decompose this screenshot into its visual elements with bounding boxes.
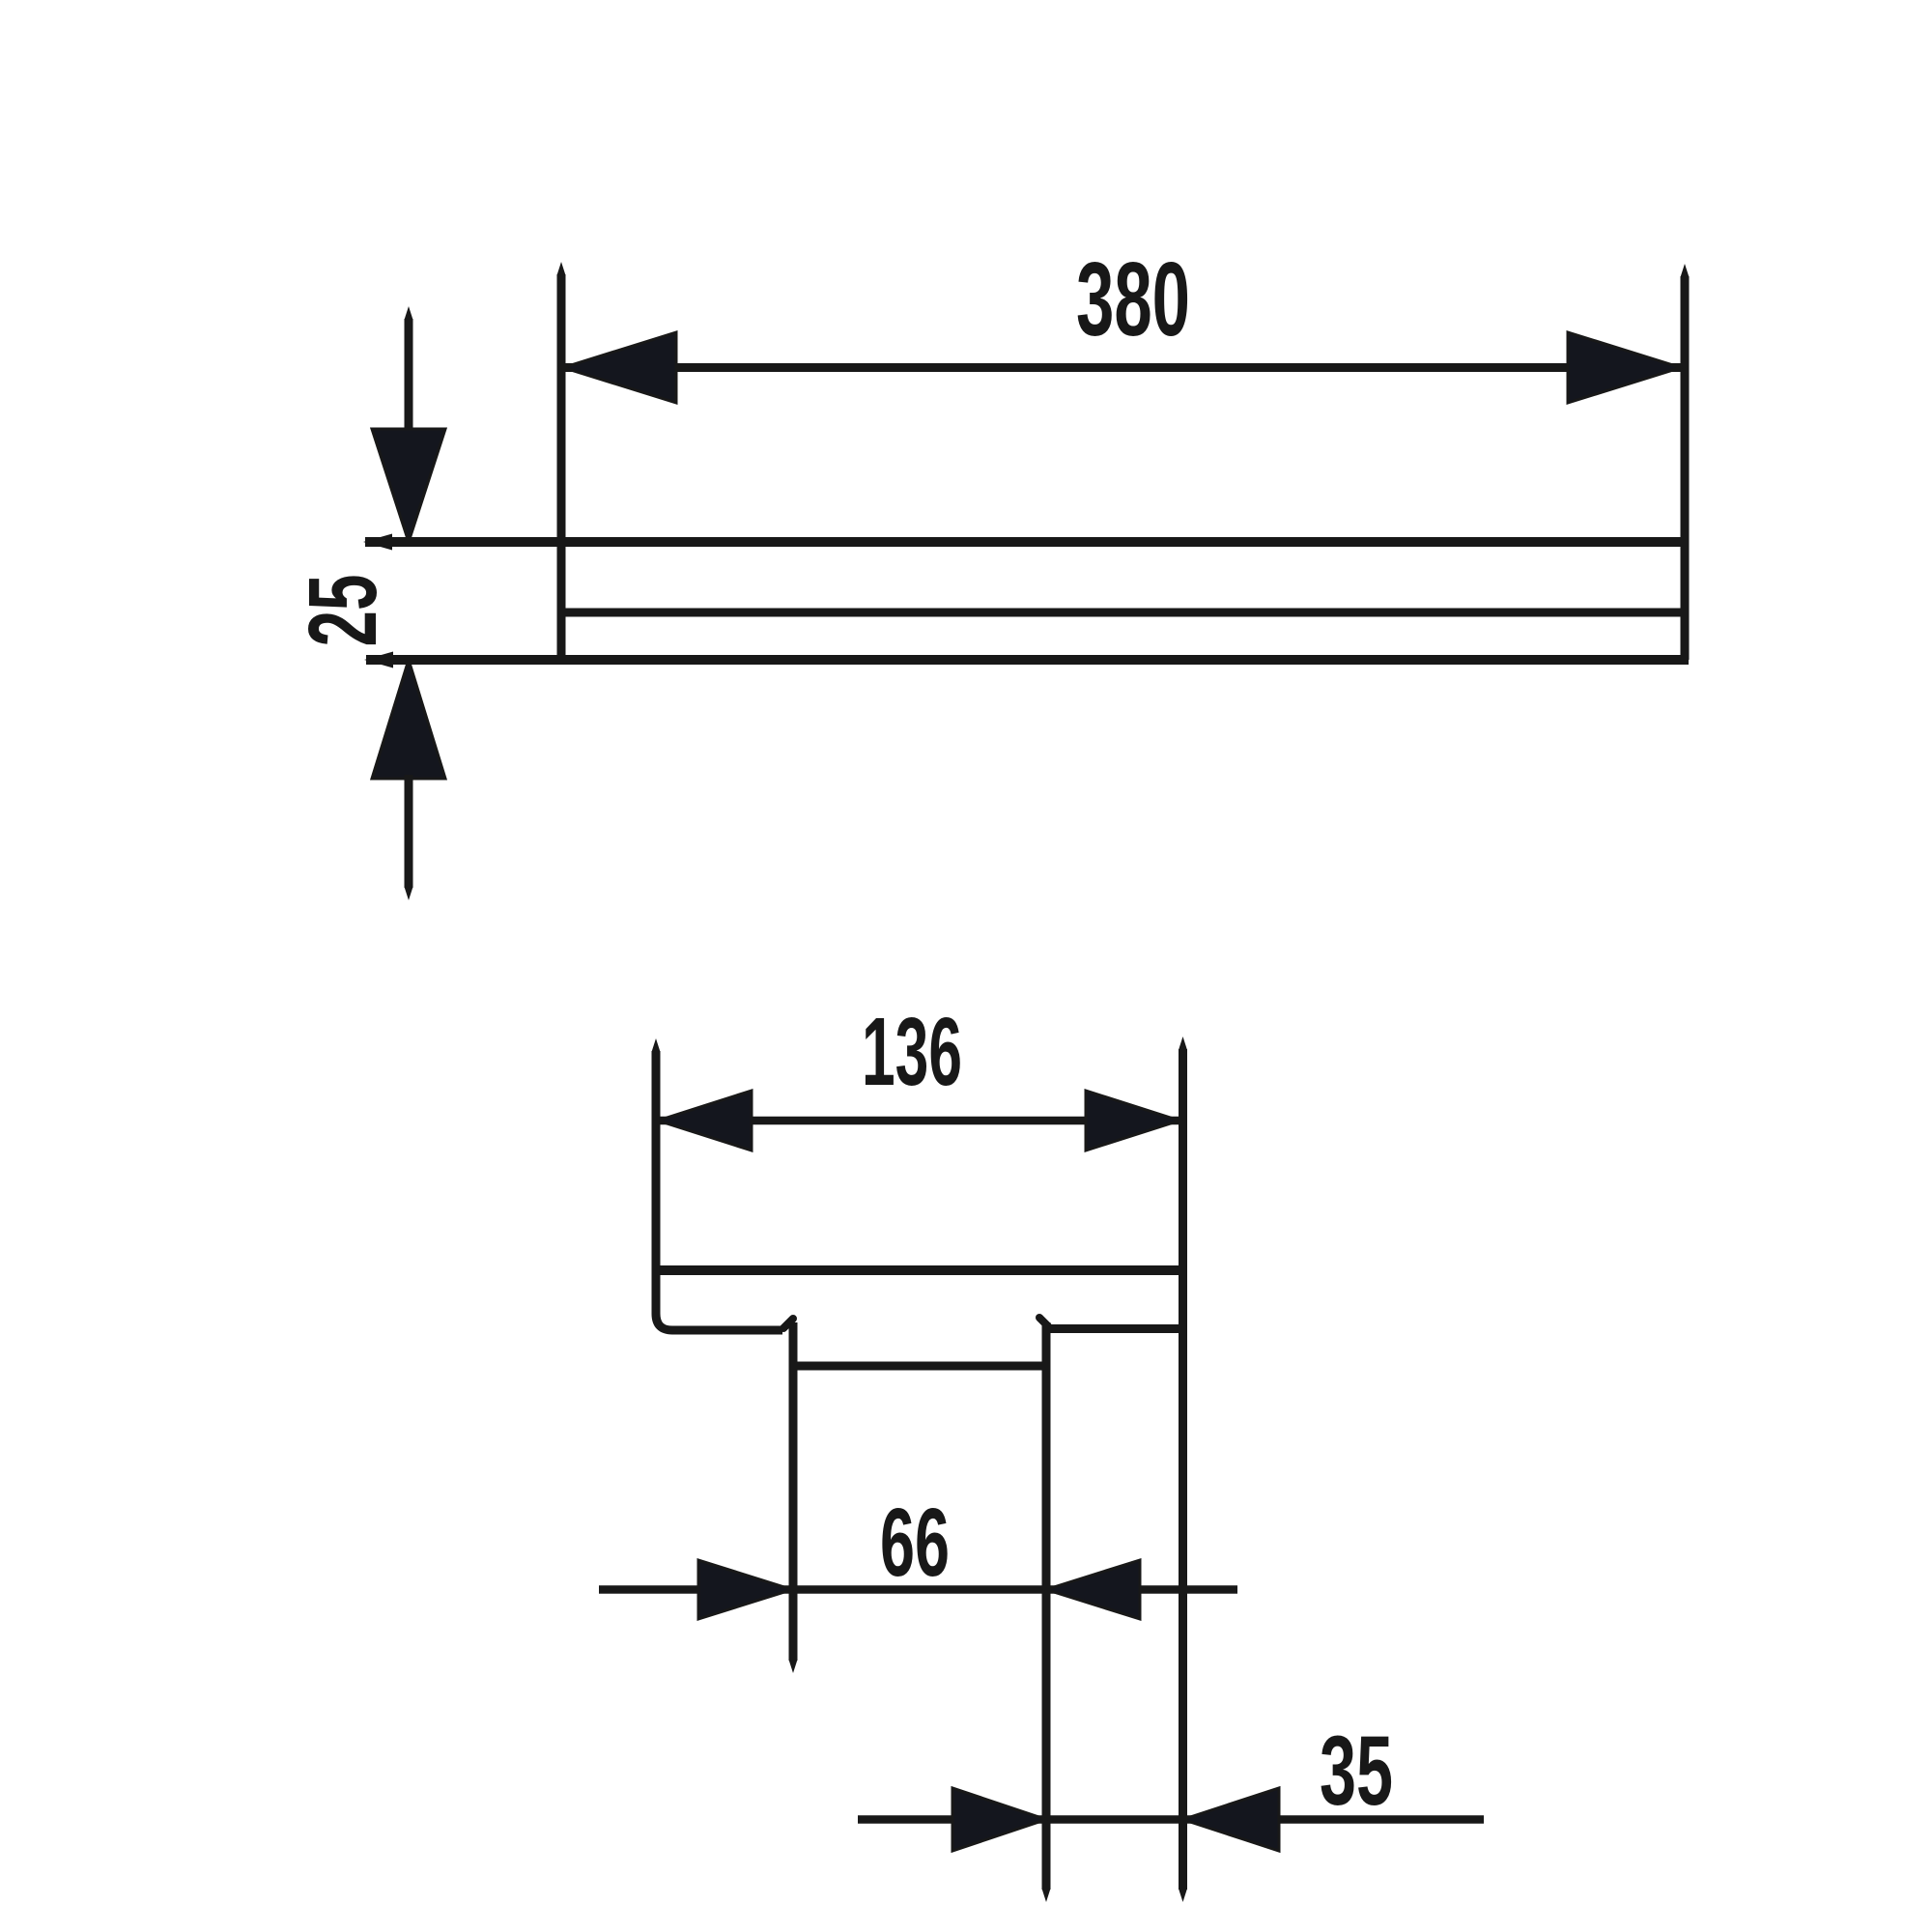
arrow cap left of bottom edge xyxy=(364,652,393,668)
flange right segment xyxy=(1049,1324,1183,1333)
dimension line 136 xyxy=(658,1117,1179,1125)
arrow cap left of top edge xyxy=(363,534,392,551)
svg-text:66: 66 xyxy=(880,1489,950,1597)
arrowhead 35 right (points left) xyxy=(1183,1788,1280,1851)
extension line right (136/35) / profile right edge xyxy=(1179,1049,1187,1889)
hook left flange end xyxy=(783,1319,793,1328)
svg-text:136: 136 xyxy=(862,998,962,1106)
dimension line 35 xyxy=(858,1815,1484,1824)
wire bar middle groove line xyxy=(561,609,1685,617)
dimension line 66 xyxy=(599,1585,1237,1594)
arrowhead 380 left xyxy=(563,332,676,403)
arrowhead 25 down xyxy=(372,429,445,542)
extension line right (380) / bar right edge xyxy=(1681,276,1690,660)
svg-text:35: 35 xyxy=(1320,1716,1393,1826)
svg-text:380: 380 xyxy=(1076,241,1190,358)
hook right flange end xyxy=(1039,1318,1048,1326)
profile top line xyxy=(656,1265,1183,1275)
arrowhead 25 up xyxy=(372,660,445,779)
dimension 25 upper extension xyxy=(405,319,413,432)
arrowhead 136 left xyxy=(658,1091,752,1151)
arrowhead 66 left (points right) xyxy=(698,1560,792,1619)
wire bar top edge (top view) xyxy=(365,537,1685,547)
arrowhead 66 right (points left) xyxy=(1046,1560,1140,1619)
extension line left (380) / bar left edge xyxy=(557,274,566,660)
dimension 25 lower extension xyxy=(405,775,413,888)
wire bar bottom edge (top view) xyxy=(366,655,1689,665)
arrowhead 136 right xyxy=(1086,1091,1179,1151)
inner line between stems xyxy=(793,1362,1046,1371)
svg-text:25: 25 xyxy=(289,575,397,647)
arrowhead 35 left (points right) xyxy=(952,1788,1046,1851)
extension line left (136) with corner into flange xyxy=(656,1051,782,1330)
stem left edge / extension 66 left xyxy=(789,1322,798,1661)
arrowhead 380 right xyxy=(1568,332,1681,403)
dimension line 380 xyxy=(563,363,1681,372)
stem right edge / extension 66-35 xyxy=(1042,1322,1051,1889)
